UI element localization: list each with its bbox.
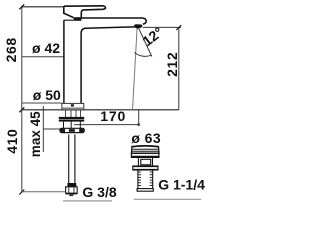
tube lines to fitting <box>64 122 81 129</box>
hose nut facet <box>73 187 75 193</box>
supply hose left line <box>68 135 70 184</box>
drain locknut top edge <box>133 165 158 167</box>
angle arc <box>134 53 151 57</box>
extension line top (faucet top level) <box>21 6 64 8</box>
tick 212 top <box>176 25 181 30</box>
svg-text:212: 212 <box>164 52 180 77</box>
hose fitting left cap <box>60 129 65 133</box>
svg-text:G 1-1/4: G 1-1/4 <box>158 177 205 193</box>
lever handle <box>64 6 106 18</box>
hose end nub <box>69 194 73 196</box>
drain neck detail square <box>141 159 151 165</box>
drain neck left <box>137 157 139 166</box>
hose collar <box>67 183 76 187</box>
extension line drain axis <box>138 110 140 125</box>
base flange <box>62 103 84 109</box>
drain cap top thick edge <box>132 145 159 148</box>
column left edge <box>63 20 65 103</box>
spout underside <box>81 27 135 104</box>
tick at hose end <box>19 190 24 195</box>
threaded shank below deck <box>66 110 81 117</box>
drain locknut bottom edge <box>133 169 158 171</box>
drain tail right edge <box>152 170 154 189</box>
extension line spout tip level <box>143 26 181 28</box>
supply hose right line <box>74 135 76 184</box>
drain dome cap <box>132 146 160 153</box>
dim line ø50 <box>22 102 62 104</box>
dim line 170 <box>74 124 139 126</box>
base flange gasket band <box>62 107 83 109</box>
drain tail thread ticks left <box>138 172 141 186</box>
extension line 410 bottom <box>22 191 66 193</box>
max45 bottom extension to hose fitting <box>43 128 60 130</box>
tick at top <box>19 4 24 9</box>
aerator at spout tip <box>134 24 142 28</box>
drain neck right <box>152 157 154 166</box>
hose nut G3/8 <box>66 187 78 193</box>
dim line max45 vertical <box>42 106 44 152</box>
hose nut bottom edge <box>66 193 78 195</box>
lever pivot base <box>74 17 82 20</box>
drain locknut <box>133 166 158 170</box>
dim line ø42 <box>22 56 64 58</box>
angle leg 12 deg <box>138 26 152 56</box>
drain tail bottom lip <box>137 189 153 192</box>
deck line <box>22 109 179 111</box>
drain cap ring line 1 <box>133 148 158 150</box>
drain tail thread ticks right <box>150 172 153 186</box>
svg-text:G 3/8: G 3/8 <box>82 184 116 200</box>
hose fitting <box>60 128 84 132</box>
svg-text:max 45: max 45 <box>28 111 43 157</box>
svg-text:ø 50: ø 50 <box>33 87 61 103</box>
spout top edge <box>73 18 146 24</box>
dimension 212 vertical <box>178 28 180 110</box>
body top surface line <box>64 19 81 21</box>
svg-text:268: 268 <box>3 37 19 62</box>
tick at deck <box>19 107 24 112</box>
grey rule under G 3/8 <box>63 200 112 202</box>
svg-text:ø 63: ø 63 <box>131 130 161 146</box>
tick at 170 right end <box>138 123 140 125</box>
hose fitting center mark <box>69 129 75 132</box>
flange center detail <box>71 104 74 106</box>
drain flange band <box>131 153 159 157</box>
drain cap ring line 2 <box>132 150 159 152</box>
locknut <box>59 120 84 122</box>
hose nut facet <box>68 187 70 193</box>
dimension line 268/410 vertical <box>21 7 23 192</box>
washer <box>59 117 84 119</box>
grey rule under drain <box>134 198 202 200</box>
svg-text:ø 42: ø 42 <box>32 40 60 56</box>
svg-text:410: 410 <box>4 129 20 154</box>
drain flange bottom thick edge <box>131 156 159 158</box>
drain tail left edge <box>137 170 139 189</box>
hose fitting right cap <box>79 129 84 133</box>
angle leg vertical reference <box>133 26 138 109</box>
